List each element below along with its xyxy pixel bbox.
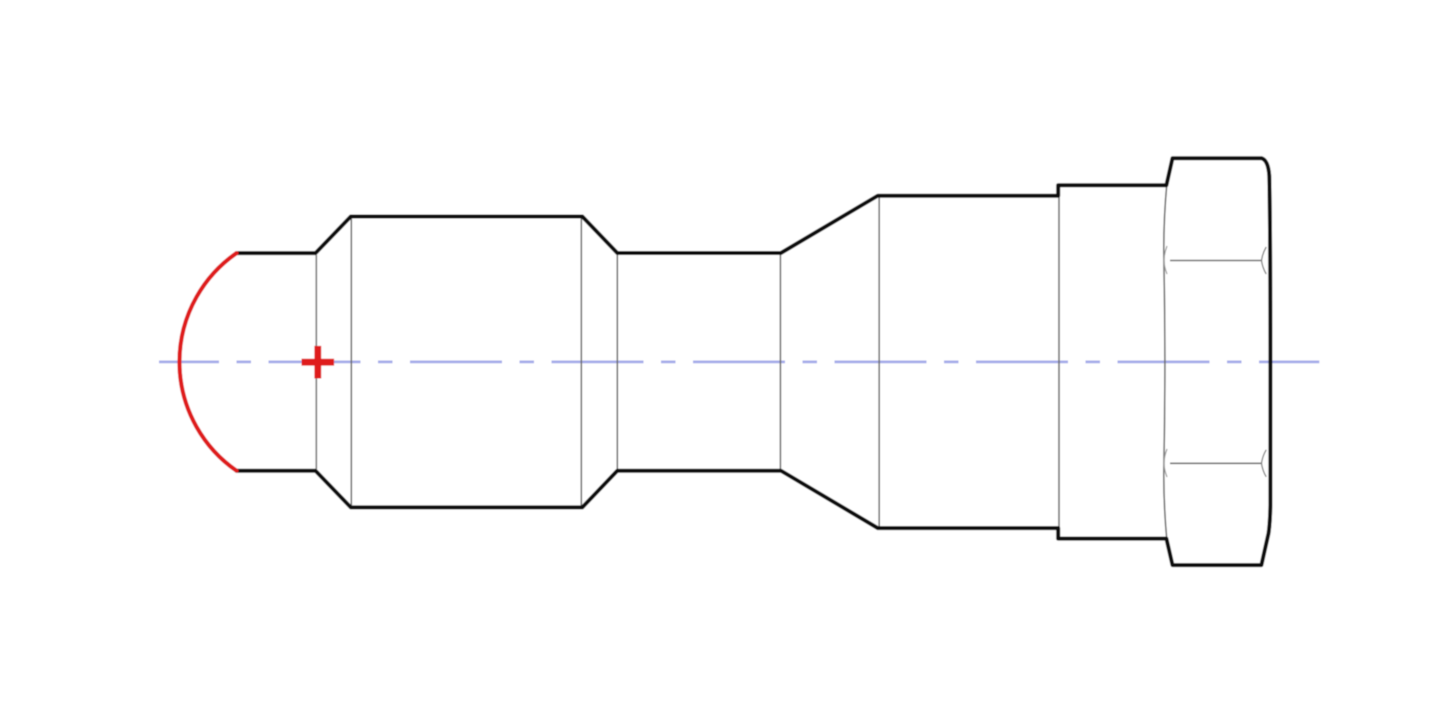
hex face arcs at lower-right cusp — [1262, 450, 1267, 477]
hex face arcs at upper-right cusp — [1262, 247, 1267, 274]
red center mark (cross) — [302, 346, 335, 379]
tangent edge at x=780 (neck / cone boundary) — [779, 255, 781, 469]
hex face arcs at upper-left cusp — [1164, 246, 1167, 274]
tangent edge at x=316 (cylinder A / taper boundary) — [315, 255, 317, 469]
tangent edge at x=617 (taper / neck boundary) — [616, 255, 618, 469]
tangent edge at x=879 (cone / cylinder C boundary) — [878, 198, 880, 527]
hex facet line lower — [1170, 462, 1261, 464]
hex nut left silhouette arcs — [1164, 187, 1167, 538]
hex facet line upper — [1170, 260, 1261, 262]
tangent edge at x=581 (main body / taper boundary) — [580, 219, 582, 506]
collar left face edge at x=1059 — [1058, 198, 1060, 527]
fitting body outline — [237, 158, 1271, 565]
tangent edge at x=351 (taper / main body boundary) — [350, 219, 352, 506]
red dome arc — [179, 253, 236, 471]
centerline (dash-dot axis) — [159, 360, 1319, 363]
hex face arcs at lower-left cusp — [1164, 449, 1167, 477]
